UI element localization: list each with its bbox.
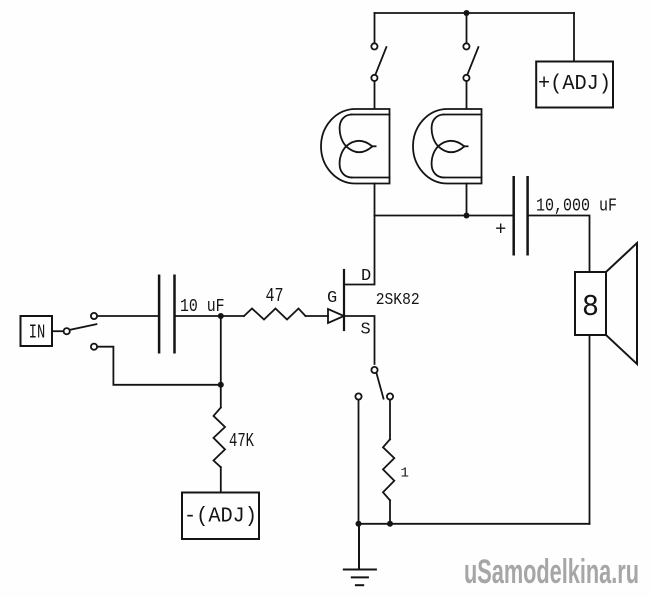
- power box +ADJ: [536, 62, 613, 108]
- svg-text:uSamodelkina.ru: uSamodelkina.ru: [464, 553, 639, 591]
- wire top rail: [375, 12, 575, 14]
- lamp LP1: [321, 109, 390, 216]
- wire rail to +ADJ box: [573, 13, 575, 62]
- ground: [344, 524, 376, 585]
- wire speaker to bottom rail: [589, 335, 591, 524]
- wire bottom rail: [359, 523, 590, 525]
- input box IN: [21, 316, 53, 346]
- resistor R2 47K: [214, 408, 226, 468]
- wire C1 junction down to R2: [220, 316, 222, 408]
- wire R3 to bottom rail: [389, 500, 391, 524]
- transistor Q1 2SK82: [328, 216, 375, 365]
- switch S1: [371, 13, 386, 108]
- svg-text:47: 47: [266, 285, 284, 307]
- power box -ADJ: [182, 493, 259, 540]
- svg-text:8: 8: [582, 290, 599, 325]
- switch S4 input: [52, 313, 97, 350]
- switch S2: [463, 13, 478, 108]
- svg-text:G: G: [327, 289, 337, 308]
- wire R2 to -ADJ box: [220, 467, 222, 492]
- capacitor C1 10uF: [159, 276, 174, 353]
- node top rail junction: [464, 10, 470, 16]
- svg-text:+(ADJ): +(ADJ): [538, 73, 611, 96]
- svg-text:2SK82: 2SK82: [376, 291, 420, 310]
- svg-text:47K: 47K: [229, 430, 254, 452]
- svg-text:S: S: [361, 321, 371, 340]
- resistor R1 47: [244, 309, 306, 320]
- svg-text:10 uF: 10 uF: [180, 297, 225, 317]
- speaker SP1: [575, 243, 637, 364]
- capacitor C2 10000uF: [514, 177, 528, 254]
- wire S4 top throw to C1: [97, 315, 159, 317]
- svg-text:-(ADJ): -(ADJ): [184, 506, 257, 529]
- svg-text:10,000 uF: 10,000 uF: [536, 197, 617, 217]
- svg-text:D: D: [361, 267, 371, 286]
- wire drain rail: [375, 215, 514, 217]
- node feedback junction: [218, 382, 224, 388]
- wire cap to speaker: [528, 216, 590, 273]
- svg-text:1: 1: [401, 465, 409, 481]
- resistor R3 1: [383, 439, 394, 500]
- node C1 out junction: [218, 313, 224, 319]
- lamp LP2: [413, 109, 481, 216]
- switch S3 source: [355, 367, 393, 524]
- node R3 bottom junction: [387, 521, 393, 527]
- wire R1 to gate: [306, 315, 329, 317]
- node ground junction: [356, 521, 362, 527]
- svg-text:IN: IN: [29, 322, 46, 344]
- wire C1 to R1: [175, 315, 245, 317]
- svg-text:+: +: [495, 219, 506, 241]
- wire S4 bottom throw to junction: [97, 347, 221, 385]
- node lamp2 drain junction: [464, 213, 470, 219]
